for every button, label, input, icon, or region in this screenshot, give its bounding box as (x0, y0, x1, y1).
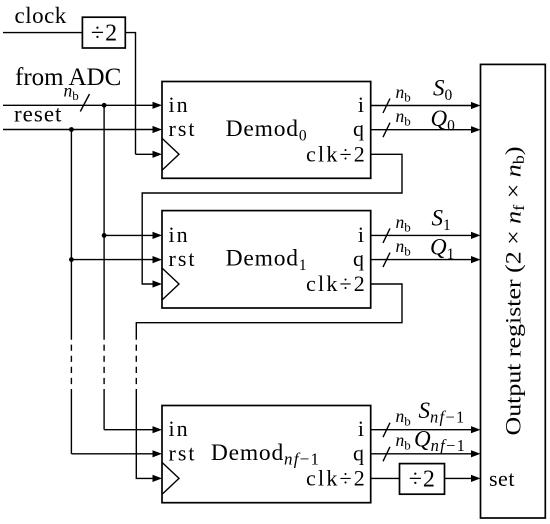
arrow into Demod0 in (153, 102, 163, 109)
svg-text:÷2: ÷2 (409, 467, 436, 493)
arrow Q nf-1 into register (471, 450, 481, 457)
svg-text:rst: rst (169, 440, 197, 465)
wire S nf-1 (371, 429, 472, 431)
svg-text:i: i (358, 416, 364, 441)
bus slash Q1 (383, 253, 390, 268)
svg-text:rst: rst (169, 116, 197, 141)
bus slash S nf-1 (383, 423, 390, 438)
wire rst branch to Demod nf-1 (71, 453, 153, 455)
svg-text:in: in (169, 416, 190, 441)
bus slash S0 (383, 99, 390, 114)
wire S1 (371, 234, 472, 236)
junction dot reset top (69, 127, 74, 132)
wire in branch to Demod nf-1 (104, 429, 153, 431)
wire reset (3, 129, 153, 131)
svg-text:clock: clock (15, 3, 67, 28)
wire from ADC (3, 104, 153, 106)
wire Q1 (371, 259, 472, 261)
bus slash S1 (383, 228, 390, 243)
arrow into Demod1 rst (153, 256, 163, 263)
arrow Q1 into register (471, 256, 481, 263)
arrow S1 into register (471, 232, 481, 239)
svg-text:rst: rst (169, 246, 197, 271)
arrow into Demod nf-1 in (153, 426, 163, 433)
svg-text:i: i (358, 222, 364, 247)
svg-text:clk÷2: clk÷2 (306, 271, 367, 296)
junction dot ADC Demod1 (102, 233, 107, 238)
arrow into Demod nf-1 clk (153, 475, 163, 482)
bus slash Q0 (383, 123, 390, 138)
wire reset vertical bus (70, 130, 72, 334)
arrow into Demod1 clk (153, 280, 163, 287)
wire ADC vertical bus (103, 105, 105, 333)
arrow S nf-1 into register (471, 426, 481, 433)
junction dot ADC top (102, 103, 107, 108)
Demod1 box (162, 211, 371, 308)
wire clk/2 to divider (371, 477, 400, 479)
svg-text:Output register (2 × nf × nb): Output register (2 × nf × nb) (501, 147, 529, 436)
wire clock divided (125, 33, 135, 155)
wire clk chain Demod0 to Demod1 (142, 154, 402, 284)
svg-text:reset: reset (14, 102, 62, 127)
output register box (481, 64, 546, 518)
wire clock (3, 32, 82, 34)
arrow into Demod1 in (153, 232, 163, 239)
svg-text:in: in (169, 222, 190, 247)
svg-text:clk÷2: clk÷2 (306, 141, 367, 166)
svg-text:i: i (358, 92, 364, 117)
Demod nf-1 box (162, 406, 371, 503)
wire divider to set (445, 477, 472, 479)
junction dot reset Demod1 (69, 257, 74, 262)
bus slash from ADC (80, 94, 89, 112)
arrow into Demod nf-1 rst (153, 450, 163, 457)
svg-text:q: q (353, 116, 364, 141)
arrow Q0 into register (471, 126, 481, 133)
Demod0 box (162, 82, 371, 179)
svg-text:÷2: ÷2 (91, 21, 118, 47)
arrow into Demod0 clk (153, 151, 163, 158)
wire clk chain Demod1 to Demod nf-1 (136, 284, 402, 334)
svg-text:q: q (353, 440, 364, 465)
arrow set into register (471, 475, 481, 482)
wire clk to Demod0 (136, 153, 154, 155)
divider box /2 top (82, 17, 125, 48)
svg-text:Demod0: Demod0 (226, 116, 308, 145)
wire in branch to Demod1 (104, 234, 153, 236)
wire S0 (371, 105, 472, 107)
clock triangle Demod nf-1 (162, 462, 179, 494)
wire rst branch to Demod1 (71, 259, 153, 261)
bus slash Q nf-1 (383, 447, 390, 462)
svg-text:clk÷2: clk÷2 (306, 465, 367, 490)
clock triangle Demod1 (162, 268, 179, 300)
arrow into Demod0 rst (153, 126, 163, 133)
svg-text:in: in (169, 92, 190, 117)
svg-text:q: q (353, 246, 364, 271)
wire Q0 (371, 129, 472, 131)
svg-text:Demod1: Demod1 (226, 246, 308, 275)
arrow S0 into register (471, 102, 481, 109)
svg-text:set: set (489, 466, 515, 491)
divider box /2 bottom (400, 464, 445, 495)
clock triangle Demod0 (162, 138, 179, 170)
wire Q nf-1 (371, 453, 472, 455)
